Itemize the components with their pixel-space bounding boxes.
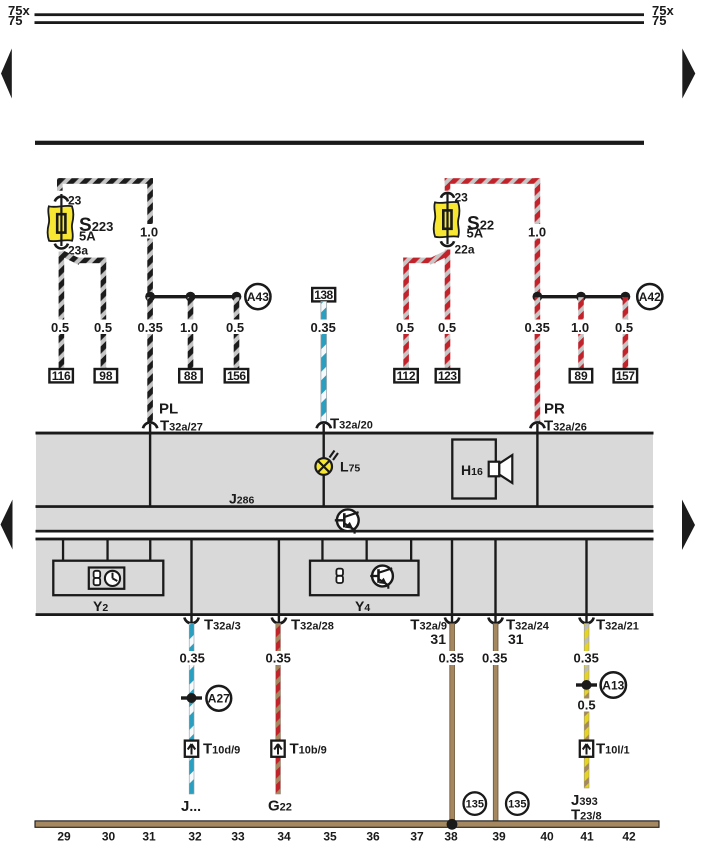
actuator block top border: [36, 538, 654, 541]
wire red/white top horizontal run: [445, 178, 541, 184]
wire red/white 0.5 to terminal 157: [623, 297, 629, 369]
connector arc T32a/28: [272, 618, 286, 624]
svg-text:38: 38: [444, 830, 458, 844]
svg-text:0.35: 0.35: [525, 320, 550, 335]
svg-text:88: 88: [184, 369, 198, 383]
actuator block body: [36, 539, 653, 616]
terminal arrow 22a down: [441, 241, 454, 246]
wire black/white 0.35 from node down to PL: [147, 297, 153, 423]
wire inside J286 from T32a/20 to L75: [323, 433, 325, 458]
svg-text:T32a/20: T32a/20: [330, 416, 373, 433]
terminal box 88: [179, 369, 202, 383]
wire yellow/grey T32a/21 upper: [584, 624, 589, 684]
lamp L75: [315, 451, 338, 475]
control unit J286 inner separator: [36, 505, 654, 508]
ground reference 135 b: [506, 792, 529, 815]
electronics symbol in J286: [335, 509, 359, 533]
label gap 0.5 wire112: [394, 320, 418, 335]
svg-text:75: 75: [8, 13, 22, 28]
svg-text:T32a/28: T32a/28: [291, 617, 334, 634]
svg-text:T10l/1: T10l/1: [596, 741, 630, 758]
wire red/white branch horizontal right: [403, 258, 435, 264]
terminal box 89: [570, 369, 593, 383]
svg-text:A13: A13: [602, 678, 624, 692]
terminal arrow 23 up at fuse S223: [55, 197, 68, 202]
svg-text:75: 75: [652, 13, 666, 28]
wire black/white branch vertical to terminal 98: [101, 258, 107, 369]
node A13 junction dot: [582, 680, 592, 690]
svg-text:T32a/21: T32a/21: [596, 617, 639, 634]
node A27 tie bar: [181, 696, 202, 699]
node A27: [206, 686, 231, 711]
connector arc T32a/24: [488, 618, 502, 624]
node bar right: [536, 295, 626, 298]
label gap 1.0 wire89: [570, 320, 593, 335]
wire red/white branch diagonal right: [429, 253, 448, 262]
wire black/white branch horizontal: [74, 258, 106, 264]
svg-text:0.5: 0.5: [51, 320, 69, 335]
wire red/brown T32a/28 down: [276, 624, 281, 795]
terminal box 157: [614, 369, 638, 383]
label gap 0.5 wire98: [92, 320, 116, 335]
connector arc T32a/27: [143, 422, 157, 428]
node A13 tie bar: [576, 683, 597, 686]
svg-text:0.5: 0.5: [615, 320, 633, 335]
svg-text:PR: PR: [544, 401, 565, 418]
svg-text:40: 40: [540, 830, 554, 844]
svg-text:30: 30: [102, 830, 116, 844]
label gap 0.35 w28: [265, 651, 292, 665]
connector arc T32a/20: [317, 422, 331, 428]
svg-text:32: 32: [188, 830, 202, 844]
label gap 0.35 right: [524, 320, 552, 335]
connector T10l/1: [580, 741, 593, 757]
junction dot left1: [145, 292, 155, 302]
junction dot left3: [232, 292, 242, 302]
Y2 box: [53, 561, 163, 596]
svg-text:31: 31: [142, 830, 156, 844]
connector arc T32a/26: [530, 422, 544, 428]
svg-text:J...: J...: [181, 798, 201, 815]
fuse S22 element wire: [446, 192, 448, 244]
svg-text:0.35: 0.35: [482, 651, 507, 666]
svg-text:0.35: 0.35: [439, 651, 464, 666]
Y2 stub 2: [106, 539, 108, 562]
svg-text:0.35: 0.35: [180, 651, 205, 666]
svg-text:0.35: 0.35: [311, 320, 336, 335]
continuation arrow mid-left: [1, 500, 13, 550]
svg-text:31: 31: [508, 631, 524, 647]
connector arc T32a/3: [184, 618, 198, 624]
label gap 0.5 w21: [577, 699, 597, 712]
continuation arrow top-right: [682, 49, 695, 99]
wire black/white down to terminal 116: [59, 252, 65, 370]
svg-text:T32a/3: T32a/3: [204, 617, 241, 634]
terminal box 112: [394, 369, 418, 383]
svg-text:0.5: 0.5: [396, 320, 414, 335]
horn H16 box: [452, 440, 496, 499]
wire brown T32a/24 down to ground bus: [493, 624, 498, 822]
wire black/white 1.0 vertical to node: [147, 178, 153, 297]
wire black/white stub down from top-left corner: [57, 178, 63, 191]
terminal arrow 23a down: [55, 244, 68, 249]
svg-text:1.0: 1.0: [571, 320, 589, 335]
Y4 box: [310, 561, 419, 596]
Y2 stub 1: [62, 539, 64, 562]
wire into J286 at T32a/26: [536, 424, 538, 434]
svg-text:0.5: 0.5: [438, 320, 456, 335]
svg-text:PL: PL: [159, 401, 178, 418]
junction dot right2: [576, 292, 586, 302]
svg-text:T10d/9: T10d/9: [203, 741, 240, 758]
svg-text:A42: A42: [639, 290, 661, 304]
wire through actuator block T32a/9: [451, 539, 453, 623]
svg-text:29: 29: [57, 830, 71, 844]
Y4 stub 1: [321, 539, 323, 562]
fuse S22 yellow body: [434, 202, 460, 237]
wire into J286 at T32a/27: [149, 424, 151, 434]
ground reference 135 a: [464, 792, 487, 815]
wire black/white 1.0 to terminal 88: [188, 297, 194, 369]
wire red/white 1.0 vertical to node: [535, 178, 541, 297]
svg-text:0.5: 0.5: [578, 698, 596, 713]
node bar left: [149, 295, 238, 298]
Y2 clock symbol: [105, 571, 120, 586]
wire into J286 at T32a/20: [323, 424, 325, 434]
terminal box 156: [225, 369, 249, 383]
svg-text:0.5: 0.5: [226, 320, 244, 335]
svg-text:36: 36: [366, 830, 380, 844]
fuse S223 yellow body: [48, 206, 74, 241]
svg-text:35: 35: [323, 830, 337, 844]
ground bus junction dot: [447, 819, 458, 830]
label gap 0.35 w21: [573, 651, 600, 665]
label gap 0.5 wire157: [614, 320, 637, 335]
svg-text:5A: 5A: [467, 226, 484, 241]
svg-text:5A: 5A: [79, 228, 96, 243]
svg-text:89: 89: [574, 369, 588, 383]
Y2 inner box: [89, 568, 125, 589]
connector T10d/9: [185, 741, 198, 757]
actuator block bottom border: [36, 613, 654, 616]
svg-text:156: 156: [227, 369, 246, 383]
Y4 electronics symbol: [370, 566, 393, 589]
svg-text:0.35: 0.35: [266, 651, 291, 666]
svg-text:123: 123: [438, 369, 457, 383]
label gap for 1.0 right: [526, 224, 550, 239]
svg-text:135: 135: [466, 799, 484, 811]
node A42: [637, 284, 662, 309]
Y2 display segments: [94, 571, 101, 585]
svg-text:33: 33: [231, 830, 245, 844]
label gap 0.5 wire123: [436, 320, 460, 335]
junction dot right3: [621, 292, 631, 302]
svg-text:37: 37: [410, 830, 424, 844]
wire 75x rail: [35, 13, 645, 16]
svg-text:98: 98: [99, 369, 113, 383]
svg-text:A43: A43: [247, 290, 269, 304]
label gap 0.35 middle: [310, 320, 338, 335]
wire inside J286 from T32a/27: [149, 433, 151, 506]
svg-text:116: 116: [52, 369, 71, 383]
control unit J286 body: [36, 433, 653, 533]
wire blue/white from 138 down: [321, 301, 327, 423]
wire through actuator block T32a/3: [190, 539, 192, 623]
speaker icon H16: [489, 455, 513, 483]
wire through actuator block T32a/21: [585, 539, 587, 623]
wire inside J286 from T32a/26: [536, 433, 538, 506]
Y4 stub 3: [410, 539, 412, 562]
continuation arrow mid-right: [682, 500, 695, 551]
fuse S22 symbol rectangle: [443, 210, 451, 228]
Y2 stub 3: [149, 539, 151, 562]
svg-text:G22: G22: [268, 798, 292, 815]
svg-text:42: 42: [622, 830, 636, 844]
connector T10b/9: [271, 741, 284, 757]
control unit J286 top border: [36, 432, 654, 435]
svg-text:A27: A27: [208, 692, 230, 706]
terminal box 116: [49, 369, 73, 383]
wire red/white 0.35 from node down to PR: [535, 297, 541, 423]
wire red/white down to terminal 123: [445, 250, 451, 370]
label gap 0.35 w9: [437, 651, 464, 665]
wire blue/white T32a/3 down: [189, 624, 194, 795]
wire 75 rail: [35, 21, 645, 24]
label gap 1.0 wire88: [179, 320, 202, 335]
terminal box 98: [95, 369, 118, 383]
svg-text:0.5: 0.5: [94, 320, 112, 335]
svg-text:0.35: 0.35: [138, 320, 163, 335]
fuse S223 symbol rectangle: [57, 214, 65, 232]
Y4 stub 2: [366, 539, 368, 562]
ground bus bar: [35, 821, 659, 827]
junction dot right1: [533, 292, 543, 302]
wire red/white stub down from corner: [445, 178, 451, 191]
svg-text:1.0: 1.0: [140, 225, 158, 240]
svg-text:138: 138: [314, 288, 333, 302]
label gap 0.5 wire156: [225, 320, 248, 335]
label gap 0.35: [137, 320, 165, 335]
svg-text:T10b/9: T10b/9: [290, 741, 327, 758]
node A43: [245, 284, 270, 309]
control unit J286 bottom border: [36, 530, 654, 533]
wire brown T32a/9 down to ground bus: [450, 624, 455, 822]
terminal box 123: [436, 369, 460, 383]
fuse S223 element wire: [60, 194, 62, 246]
wire through actuator block T32a/24: [494, 539, 496, 623]
label gap 0.35 w3: [179, 651, 206, 665]
connector arc T32a/9: [445, 618, 459, 624]
label gap 0.35 w24: [481, 651, 508, 665]
wire black/white top horizontal run: [57, 178, 153, 184]
svg-text:157: 157: [616, 369, 635, 383]
wire black/white branch diagonal: [61, 253, 80, 262]
wire inside J286 from L75 down: [323, 475, 325, 506]
junction dot left2: [186, 292, 196, 302]
continuation arrow top-left: [1, 49, 12, 99]
wire black/white 0.5 to terminal 156: [234, 297, 240, 369]
wire through actuator block T32a/28: [278, 539, 280, 623]
svg-text:1.0: 1.0: [180, 320, 198, 335]
wire red/white branch vertical to terminal 112: [403, 258, 409, 369]
svg-text:39: 39: [492, 830, 506, 844]
connector arc T32a/21: [579, 618, 593, 624]
svg-text:0.35: 0.35: [574, 651, 599, 666]
svg-text:112: 112: [397, 369, 416, 383]
svg-text:34: 34: [277, 830, 291, 844]
svg-text:22a: 22a: [455, 243, 475, 257]
separator bus line: [35, 141, 644, 145]
terminal arrow 23 up at fuse S22: [441, 193, 454, 198]
svg-text:135: 135: [508, 799, 526, 811]
node A27 junction dot: [187, 693, 197, 703]
terminal box 138: [312, 288, 335, 302]
wire red/white 1.0 to terminal 89: [578, 297, 584, 369]
wire yellow/brown T32a/21 lower: [584, 690, 589, 788]
svg-text:1.0: 1.0: [528, 225, 546, 240]
label gap for 1.0: [138, 224, 162, 239]
Y4 display segments: [336, 569, 343, 583]
svg-text:41: 41: [580, 830, 594, 844]
label gap 0.5 wire116: [49, 320, 73, 335]
svg-text:31: 31: [430, 631, 446, 647]
node A13: [601, 672, 626, 697]
